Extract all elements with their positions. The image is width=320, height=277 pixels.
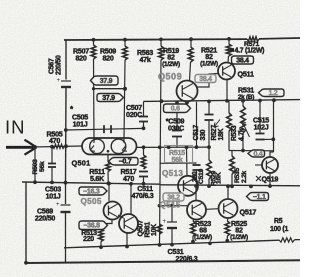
- capacitor C509 (030C) branch: [176, 103, 178, 130]
- node Q509 on bias line: [185, 101, 189, 105]
- wire mid line from Q501 output: [137, 146, 210, 148]
- transistor Q515: [187, 201, 206, 220]
- capacitor C519 (330) branch: [193, 165, 201, 170]
- resistor R503 (56k) vertical from input to ground line: [34, 147, 36, 182]
- flag 37.9 lower: [97, 94, 124, 102]
- resistor R517 (470) and capacitor C511 (470/6.3) series branch: [143, 147, 145, 155]
- resistor R513 (220) from Q505 emitter: [101, 220, 112, 230]
- capacitor C513 branch with pointer: [208, 102, 210, 114]
- node C509 top: [175, 101, 179, 105]
- wire Q515 collector up: [195, 186, 197, 200]
- node R535 bottom: [230, 184, 234, 188]
- node lower/R529 bottom: [207, 184, 211, 188]
- node mid/C519: [195, 145, 199, 149]
- wire output to right edge: [295, 239, 301, 241]
- wire Q517 collector up: [227, 186, 229, 199]
- resistor R535 (2.2k) vertical: [231, 151, 233, 157]
- wire left rail C567 to ground line: [65, 87, 68, 183]
- input arrow: [6, 140, 37, 155]
- resistor R537 (100) inline output: [279, 238, 295, 242]
- wire input line: [33, 146, 82, 147]
- node input/R503: [33, 145, 37, 149]
- wire C515 bottom to Q519 column: [260, 138, 273, 140]
- node R525 at emitter line: [225, 239, 229, 243]
- wire C569 branch down from ground line: [65, 183, 67, 204]
- wire top rail right of R571: [259, 37, 300, 40]
- node top rail R521: [227, 37, 231, 41]
- flag 36.2 grey: [163, 193, 184, 201]
- wire left rail from top rail down to C567: [65, 40, 67, 80]
- capacitor C507 (020C): [139, 117, 148, 122]
- flag -1.1: [247, 193, 269, 201]
- node top rail R563: [159, 38, 163, 42]
- resistor R505 (470) inline on input line: [53, 144, 65, 148]
- node R531 top: [241, 99, 245, 103]
- resistor R563 (47k) vertical on VAS column: [160, 40, 162, 46]
- wire Q509 emitter to bias line: [186, 102, 188, 103]
- wire Q519 top lead: [270, 152, 274, 157]
- wire top supply rail: [64, 38, 247, 41]
- wire bottom supply rail: [26, 260, 300, 263]
- flag 0.4 grey: [248, 150, 265, 158]
- wire bias line to Q519 column: [273, 100, 275, 152]
- wire C569 to bottom rail: [65, 212, 67, 263]
- node Q515 base line at VAS column: [158, 204, 162, 208]
- wire VAS column x160 full drop: [160, 60, 162, 245]
- node mid/R517: [142, 145, 146, 149]
- node lower/Q515: [194, 184, 198, 188]
- node link at R509 column: [123, 87, 127, 91]
- wire Q511 collector down: [226, 80, 228, 101]
- node input/C503: [50, 145, 54, 149]
- node R511 at ground line: [106, 182, 110, 186]
- wire Q505 base drop from ground line: [108, 184, 110, 201]
- node bottom-left corner: [24, 261, 28, 265]
- wire C507 corner drop: [143, 101, 145, 116]
- resistor R519 (82 1/2W) vertical: [190, 40, 192, 47]
- resistor R533 (4.7k) vertical: [228, 101, 230, 113]
- resistor R521 (82 1/2W) vertical: [228, 39, 230, 44]
- transistor Q517: [219, 199, 238, 218]
- node C505 line at left rail: [64, 128, 68, 132]
- wire bias line horizontal: [144, 100, 301, 102]
- wire Q513 collector drop: [186, 147, 189, 176]
- node Q511 on bias line: [225, 99, 229, 103]
- resistor R511 (5.6K) from Q501 down: [107, 155, 109, 162]
- resistor R509 (820) vertical: [124, 40, 126, 46]
- node C515 line at Q519 column: [271, 137, 275, 141]
- wire left drop to bottom rail: [25, 182, 27, 263]
- flag 1.2 at right edge: [259, 89, 285, 97]
- capacitor C505 (101J) inline: [104, 125, 111, 133]
- flag -0.7: [109, 158, 139, 166]
- resistor R561 (10K) on VAS column bottom: [157, 224, 162, 234]
- node bias/VAS column: [160, 99, 164, 103]
- resistor R571 (4.7 1/2W) inline on top rail: [247, 37, 259, 41]
- node lower line x251: [249, 185, 253, 189]
- resistor R525 (82 1/2W) from Q517 emitter: [226, 218, 229, 221]
- capacitor C567 (220/50) electrolytic on left rail: [57, 78, 72, 87]
- node x274 on bias line: [272, 98, 276, 102]
- transistor Q507: [119, 214, 138, 233]
- resistor R529 (16K) vertical: [207, 160, 212, 179]
- node y150/R531: [241, 149, 245, 153]
- node mid line junction x168: [167, 145, 171, 149]
- flag -16.3: [79, 187, 107, 195]
- flag 38.4 grey at Q509: [195, 75, 216, 83]
- node R517/C511 at ground line: [142, 182, 146, 186]
- wire Q515-Q517 link: [206, 208, 219, 211]
- wire Q505-Q507 link: [118, 215, 124, 218]
- wire Q519 base stub: [255, 164, 262, 166]
- flag -36.8: [79, 221, 108, 230]
- wire Q519 emitter to lower line: [269, 173, 271, 186]
- wire emitter line horizontal: [64, 240, 279, 248]
- wire C503 branch lower: [51, 167, 53, 183]
- node Q519 bottom: [268, 184, 272, 188]
- transistor Q519: [262, 157, 278, 173]
- wire Q507 emitter to emitter line: [126, 233, 128, 247]
- flag 37.9 upper: [91, 76, 119, 85]
- wire Q509 emitter column x196: [196, 102, 198, 147]
- node R513 at emitter line: [99, 245, 103, 249]
- wire ground line A horizontal: [22, 182, 160, 184]
- node emitter line x210: [208, 241, 212, 245]
- node C513 top: [207, 100, 211, 104]
- label Q519 with cross: [256, 176, 261, 181]
- dual transistor Q501 oval package: [82, 138, 137, 155]
- transistor Q513: [178, 176, 198, 196]
- transistor Q505: [104, 202, 122, 220]
- node mid/VAS column: [158, 145, 162, 149]
- wire link R507-R509 columns y88.7: [94, 88, 126, 90]
- node R503 at ground line: [33, 180, 37, 184]
- node mid/Q513 drop: [185, 145, 189, 149]
- node C569 top on ground line: [64, 181, 68, 185]
- capacitor C515 (102J) branch: [259, 101, 261, 133]
- wire lower line horizontal: [160, 185, 301, 186]
- wire y150 bias lower line: [229, 150, 274, 152]
- node input/left rail: [64, 144, 68, 148]
- node C507/C505 junction: [142, 126, 146, 130]
- capacitor C503 (101J): [48, 164, 56, 168]
- resistor R523 (68 1/2W) from Q515 emitter: [193, 219, 194, 221]
- node Q507 at emitter line: [125, 245, 129, 249]
- capacitor C569 (220/50) electrolytic: [56, 202, 71, 212]
- wire Q515 base line: [160, 205, 188, 207]
- wire C503 branch upper: [51, 147, 53, 163]
- transistor Q511: [218, 63, 235, 80]
- node top rail R507: [92, 38, 96, 42]
- wire y163 link line: [160, 162, 197, 164]
- wire Q507 collector stub from ground line: [130, 184, 132, 214]
- flag 0.6 grey: [164, 104, 191, 113]
- transistor Q509: [177, 81, 198, 102]
- node R523 at emitter line: [191, 240, 195, 244]
- node lower/Q517: [226, 184, 230, 188]
- node R561 at emitter line: [158, 243, 162, 247]
- resistor R507 (820) vertical: [93, 40, 95, 45]
- node top rail R519: [189, 37, 193, 41]
- wire C507 to C505 line: [143, 122, 145, 129]
- node Q505 base at ground line: [107, 182, 111, 186]
- flag 38.4 at R571: [232, 56, 254, 64]
- capacitor C531 (220/6.3) branch: [171, 206, 173, 222]
- label R515 56k grey boxed: [165, 146, 193, 163]
- wire C505 line horizontal: [66, 128, 144, 130]
- node link at R507 column: [92, 87, 95, 90]
- node C503 at ground line: [50, 181, 54, 185]
- node C515 top: [258, 99, 262, 103]
- wire Q509-Q511 base link: [197, 74, 219, 88]
- node mid/R529: [207, 145, 211, 149]
- trimmer R531 (2k B) vertical with wiper arrow: [242, 101, 244, 106]
- node Q507 collector at ground line: [129, 182, 133, 186]
- node top rail R509: [123, 38, 127, 42]
